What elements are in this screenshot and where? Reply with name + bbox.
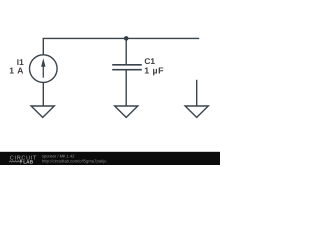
current source I1 body: [30, 55, 58, 83]
wire C1 top stub: [125, 38, 127, 64]
label C1: [144, 56, 164, 75]
ground (right, floating): [185, 106, 208, 117]
wire C1 bottom stub: [125, 70, 127, 106]
wire top horizontal net: [43, 37, 200, 39]
svg-text:LAB: LAB: [23, 160, 33, 165]
watermark bar: [0, 152, 220, 165]
svg-text:1 A: 1 A: [9, 65, 24, 75]
ground (below C1): [115, 106, 138, 117]
capacitor C1 top plate: [112, 64, 142, 66]
ground (below I1): [31, 106, 54, 117]
label I1: [9, 57, 24, 76]
wire I1 bottom stub: [42, 82, 44, 105]
wire right ground stub: [196, 80, 198, 106]
svg-text:http://circuitlab.com/c/f5gma7: http://circuitlab.com/c/f5gma7pakju: [42, 159, 107, 164]
node junction dot: [124, 36, 129, 41]
capacitor C1 bottom plate: [112, 69, 142, 71]
wire I1 top stub: [42, 38, 44, 55]
CircuitLab logo wordmark: [9, 155, 37, 165]
svg-text:1 µF: 1 µF: [144, 65, 164, 75]
current source I1 arrow: [41, 58, 45, 77]
